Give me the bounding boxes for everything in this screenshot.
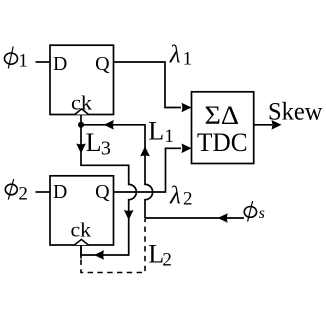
svg-text:Skew: Skew (268, 99, 323, 126)
FF2 clock wedge (74, 239, 88, 245)
svg-text:L: L (86, 128, 102, 157)
arrowhead into TDC input 2 (182, 144, 192, 154)
arrowhead left on L1 horizontal (104, 120, 114, 130)
svg-text:ck: ck (71, 220, 92, 242)
svg-text:1: 1 (18, 50, 28, 71)
wire phis to L1 vertical (145, 217, 244, 219)
wire L3: junction down, right, down with hop, left to ck2 (81, 125, 136, 255)
wire FF1.ck stub (80, 115, 82, 125)
wire phi2 to FF2.D (36, 191, 51, 193)
arrowhead down on L3 right branch (124, 210, 134, 220)
svg-text:D: D (53, 53, 67, 75)
wire TDC output Skew (254, 124, 272, 126)
svg-text:L: L (148, 117, 164, 146)
wire FF2.Q to TDC input 2 (114, 148, 182, 192)
label phi2 (5, 179, 28, 204)
svg-text:λ: λ (169, 182, 181, 209)
svg-text:D: D (53, 181, 67, 203)
svg-text:ΣΔ: ΣΔ (205, 101, 240, 130)
svg-text:s: s (259, 205, 265, 222)
wire L1: up with hop over Q2 wire, then left to ck1 junction (81, 125, 153, 218)
label phis (244, 201, 265, 222)
arrowhead Skew output (272, 120, 282, 130)
svg-text:3: 3 (101, 138, 111, 160)
svg-text:2: 2 (162, 250, 172, 271)
wire phi1 to FF1.D (36, 61, 51, 63)
label phi1 (5, 47, 28, 72)
dashed wire L2 feedback (81, 219, 145, 273)
svg-text:1: 1 (164, 126, 174, 147)
arrowhead left on L3 return (94, 250, 104, 260)
sigma-delta TDC box U1 (192, 92, 254, 164)
arrowhead into TDC input 1 (182, 103, 192, 113)
wire FF2.ck stub (80, 245, 82, 259)
arrowhead down on L3 top (76, 144, 86, 154)
flip-flop FF2 box (50, 176, 114, 245)
svg-text:Q: Q (95, 53, 110, 75)
flip-flop FF1 box (50, 45, 114, 114)
junction dot node ck1 (78, 122, 84, 128)
svg-text:λ: λ (169, 41, 181, 68)
svg-text:Q: Q (95, 181, 110, 203)
svg-text:1: 1 (183, 49, 193, 70)
svg-text:TDC: TDC (197, 128, 248, 157)
svg-text:2: 2 (18, 184, 28, 205)
FF1 clock wedge (75, 109, 89, 115)
arrowhead on phis wire (218, 213, 228, 223)
arrowhead up on L1 (140, 146, 150, 156)
wire FF1.Q to TDC input 1 (114, 62, 182, 108)
svg-text:2: 2 (183, 189, 193, 210)
